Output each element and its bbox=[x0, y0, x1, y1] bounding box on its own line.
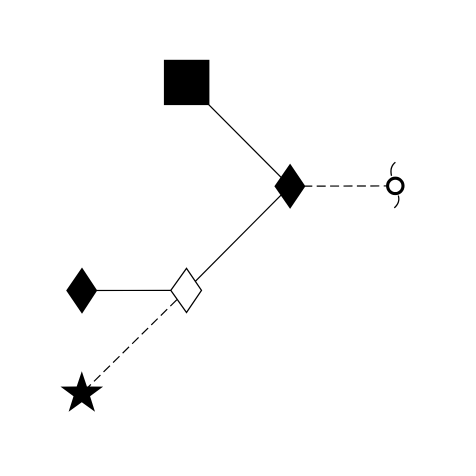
wire: solid bond center diamond to open diamond bbox=[186, 186, 290, 290]
reducing-end squiggle upper arc bbox=[391, 162, 395, 176]
node: bold circle (reducing end) bbox=[388, 178, 403, 193]
wire: dashed bond open diamond to star bbox=[82, 290, 187, 393]
node: filled diamond (NeuAc) center bbox=[274, 164, 305, 209]
wire: dashed bond center diamond to reducing-end circle bbox=[290, 185, 395, 187]
node: filled diamond (NeuAc) left bbox=[66, 268, 97, 314]
node: open diamond (KDN) bbox=[171, 268, 202, 312]
node: filled square (GalNAc) bbox=[164, 60, 210, 105]
reducing-end squiggle lower arc bbox=[394, 196, 399, 208]
wire: solid bond square to center diamond bbox=[187, 82, 290, 186]
wire: solid bond open diamond to left diamond bbox=[82, 289, 187, 291]
node: filled star (Xyl) bbox=[61, 371, 104, 412]
